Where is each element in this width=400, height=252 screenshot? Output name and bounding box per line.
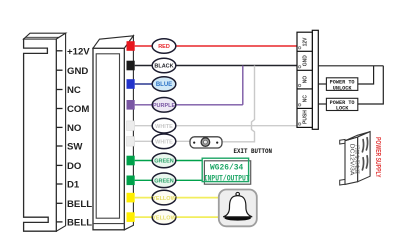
svg-text:GREEN: GREEN bbox=[154, 159, 174, 165]
white wire pad 2 bbox=[127, 137, 135, 147]
red wire to 12V terminal bbox=[135, 45, 297, 47]
door lock bracket body bbox=[24, 39, 57, 231]
svg-text:WHITE: WHITE bbox=[155, 140, 173, 146]
NC wire bbox=[318, 103, 326, 105]
wire tag oval GREEN 1 bbox=[152, 153, 176, 168]
lock branch riser bbox=[358, 66, 384, 104]
svg-text:BLUE: BLUE bbox=[156, 82, 172, 88]
door lock bracket top face bbox=[24, 33, 66, 39]
controller connector strip body bbox=[93, 48, 124, 230]
wire tag oval PURPLE bbox=[152, 98, 176, 113]
controller strip side face bbox=[124, 36, 133, 230]
exit button ground wire with crossover jog bbox=[222, 66, 255, 142]
wire tag oval BLACK bbox=[152, 58, 176, 73]
svg-text:门禁专用电源: 门禁专用电源 bbox=[354, 145, 361, 174]
power supply unit side face bbox=[358, 132, 370, 182]
power to unlock box bbox=[326, 78, 357, 92]
power supply unit bottom mounting tab bbox=[340, 179, 345, 185]
power supply unit top mounting tab bbox=[340, 139, 345, 144]
purple wire horizontal bbox=[135, 104, 243, 106]
purple wire pad bbox=[127, 100, 135, 110]
green wire 1 to WG box bbox=[135, 160, 203, 162]
svg-text:INPUT/OUTPUT: INPUT/OUTPUT bbox=[204, 174, 250, 183]
red wire pad bbox=[127, 41, 135, 51]
svg-text:PUSH: PUSH bbox=[303, 110, 309, 124]
wire tag oval YELLOW 1 bbox=[152, 190, 176, 205]
svg-text:GREEN: GREEN bbox=[154, 179, 174, 185]
svg-text:BELL: BELL bbox=[67, 199, 92, 210]
WG26/34 input-output box bbox=[202, 158, 250, 183]
svg-text:DO: DO bbox=[67, 161, 82, 172]
unlock branch riser bbox=[358, 66, 374, 84]
yellow wire pad 1 bbox=[127, 193, 135, 203]
green wire pad 2 bbox=[127, 176, 135, 186]
svg-text:YELLOW: YELLOW bbox=[152, 196, 176, 202]
svg-text:COM: COM bbox=[67, 104, 89, 115]
svg-text:SW: SW bbox=[67, 142, 83, 153]
svg-text:D1: D1 bbox=[67, 180, 80, 191]
svg-text:NO: NO bbox=[67, 123, 82, 134]
svg-text:NC: NC bbox=[303, 95, 309, 103]
wire tag oval WHITE 1 bbox=[152, 118, 176, 133]
green wire 2 to WG box bbox=[135, 179, 203, 181]
white wire pad 1 bbox=[127, 121, 135, 131]
controller strip inner panel bbox=[96, 54, 119, 218]
svg-text:RED: RED bbox=[158, 44, 170, 50]
svg-text:12V: 12V bbox=[303, 37, 309, 47]
svg-text:GND: GND bbox=[67, 66, 88, 77]
door lock bracket terminal ticks bbox=[56, 51, 62, 222]
NO wire bbox=[318, 83, 326, 85]
svg-text:BELL: BELL bbox=[67, 218, 92, 229]
svg-text:POWER SUPPLY: POWER SUPPLY bbox=[374, 137, 383, 178]
svg-text:UNLOCK: UNLOCK bbox=[333, 86, 353, 92]
svg-text:WHITE: WHITE bbox=[155, 124, 173, 130]
purple wire riser to GND net bbox=[242, 66, 244, 105]
svg-text:+12V: +12V bbox=[67, 47, 90, 58]
power supply vent slots bbox=[362, 138, 367, 170]
wire tag oval BLUE bbox=[152, 77, 176, 92]
wire tag oval RED bbox=[152, 39, 176, 54]
controller strip base seam bbox=[93, 223, 124, 225]
svg-text:EXIT BUTTON: EXIT BUTTON bbox=[234, 148, 273, 155]
white wire 1 to PUSH terminal bbox=[135, 125, 297, 127]
svg-text:NC: NC bbox=[67, 85, 81, 96]
svg-text:PURPLE: PURPLE bbox=[153, 103, 176, 109]
green wire pad 1 bbox=[127, 156, 135, 166]
yellow wire pad 2 bbox=[127, 212, 135, 222]
yellow wire 1 to bell bbox=[135, 197, 220, 199]
wire tag oval GREEN 2 bbox=[152, 173, 176, 188]
exit button plate bbox=[190, 137, 222, 148]
white wire 2 to exit button bbox=[135, 140, 191, 142]
power supply unit top face bbox=[345, 132, 370, 141]
wire tag oval WHITE 2 bbox=[152, 134, 176, 149]
svg-text:WG26/34: WG26/34 bbox=[210, 164, 243, 173]
lock terminal block cells bbox=[297, 30, 318, 129]
svg-text:DC12V/3A: DC12V/3A bbox=[348, 144, 354, 176]
blue wire stub bbox=[135, 83, 164, 85]
door lock bracket side face bbox=[56, 33, 65, 231]
lock terminal screw holes bbox=[298, 47, 300, 126]
black wire to GND terminal bbox=[135, 65, 297, 67]
svg-text:BLACK: BLACK bbox=[154, 64, 173, 70]
svg-text:NO: NO bbox=[303, 76, 309, 84]
power to lock box bbox=[326, 98, 357, 111]
door bell icon bbox=[219, 190, 257, 227]
svg-text:GND: GND bbox=[303, 55, 309, 67]
WG26/34 input-output box back plate bbox=[204, 161, 250, 184]
blue wire pad bbox=[127, 79, 135, 89]
black wire pad bbox=[127, 61, 135, 71]
wire tag oval YELLOW 2 bbox=[152, 210, 176, 225]
controller strip top face bbox=[93, 36, 133, 48]
svg-text:YELLOW: YELLOW bbox=[152, 215, 176, 221]
yellow wire 2 to bell bbox=[135, 216, 220, 218]
GND net wire to lock power bbox=[318, 65, 383, 67]
power supply unit front face bbox=[345, 137, 358, 184]
svg-text:LOCK: LOCK bbox=[336, 105, 349, 111]
